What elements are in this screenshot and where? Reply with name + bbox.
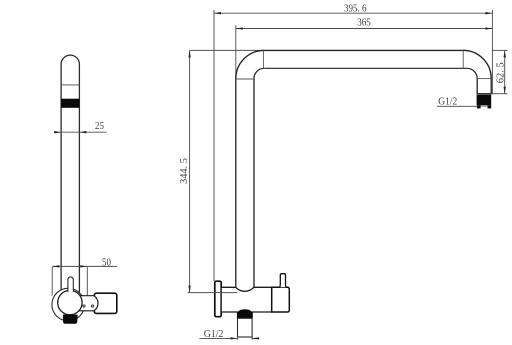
svg-text:62. 5: 62. 5 (495, 62, 506, 83)
svg-text:365: 365 (357, 17, 371, 28)
svg-text:344. 5: 344. 5 (179, 158, 190, 184)
svg-text:G1/2: G1/2 (438, 96, 457, 107)
svg-text:395. 6: 395. 6 (344, 4, 367, 15)
svg-text:25: 25 (95, 121, 104, 132)
svg-text:50: 50 (102, 257, 111, 268)
